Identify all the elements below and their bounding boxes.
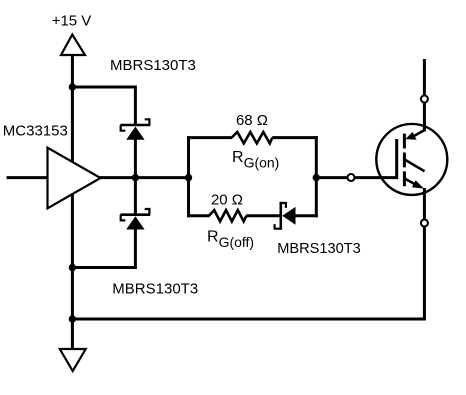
wire: left rail of resistor network — [187, 136, 190, 217]
wire: driver output to gate resistor network — [99, 176, 189, 179]
IGBT body circle — [376, 124, 447, 195]
wire: top horizontal from +15V rail to D1 cathode — [72, 87, 135, 126]
wire: +15V rail vertical from supply down to ground (passes behind driver triangle) — [71, 54, 74, 350]
svg-text:MBRS130T3: MBRS130T3 — [112, 280, 198, 297]
wire: collector lead — [423, 59, 426, 132]
wire: bottom return wire to ground rail — [72, 318, 426, 321]
wire: bottom rail left segment — [187, 214, 210, 217]
IGBT channel bar (dashed) — [403, 134, 406, 187]
wire: emitter lead down to bottom rail — [423, 188, 426, 319]
junction dot: right rail / gate wire — [313, 174, 320, 181]
wire: right rail of resistor network — [315, 136, 318, 217]
IGBT emitter arrowhead — [412, 180, 424, 188]
ground symbol — [60, 349, 86, 371]
driver buffer U1 (MC33153 output stage) — [48, 148, 101, 209]
resistor RG(off) 20 ohm zigzag — [209, 210, 247, 221]
IGBT middle diagonal — [405, 160, 425, 172]
+15V supply symbol — [61, 35, 85, 56]
junction dot: +15V rail / D1 branch — [69, 83, 76, 90]
IGBT collector diagonal — [414, 130, 425, 136]
wire: bottom rail right segment from D3 anode — [295, 214, 318, 217]
junction dot: ground rail / bottom return wire — [69, 315, 76, 322]
collector terminal circle — [421, 96, 428, 103]
svg-text:+15 V: +15 V — [52, 12, 92, 29]
svg-text:MBRS130T3: MBRS130T3 — [110, 57, 196, 74]
wire: top rail right segment — [272, 136, 318, 139]
junction dot: left rail of resistor network — [185, 174, 192, 181]
junction dot: ground rail / D2 branch — [69, 264, 76, 271]
gate terminal circle — [348, 174, 355, 181]
wire: top rail left segment — [187, 136, 232, 139]
IGBT collector arrowhead — [405, 132, 416, 140]
emitter terminal circle — [421, 220, 428, 227]
IGBT Q1 — [376, 124, 447, 195]
svg-text:MBRS130T3: MBRS130T3 — [277, 241, 361, 257]
diode D2 (Schottky, anode bottom, cathode top) — [120, 209, 150, 230]
diode D3 (Schottky, anode right, cathode left) — [275, 202, 296, 230]
wire: driver input — [7, 176, 48, 179]
wire: gate lead and gate bar of IGBT — [316, 139, 396, 178]
junction dot: main node at diode branch — [132, 174, 139, 181]
svg-text:68 Ω: 68 Ω — [236, 112, 268, 129]
svg-text:20 Ω: 20 Ω — [211, 191, 243, 208]
wire: bottom rail middle segment to D3 cathode — [246, 214, 280, 217]
diode D1 (Schottky, anode bottom, cathode top) — [120, 119, 150, 140]
wire: D1 anode lead down across main node to D2 cathode — [134, 139, 137, 215]
svg-text:MC33153: MC33153 — [3, 123, 68, 140]
IGBT emitter diagonal — [404, 178, 415, 184]
resistor RG(on) 68 ohm zigzag — [232, 132, 273, 143]
wire: D2 anode lead down and left to ground rail — [72, 229, 135, 268]
